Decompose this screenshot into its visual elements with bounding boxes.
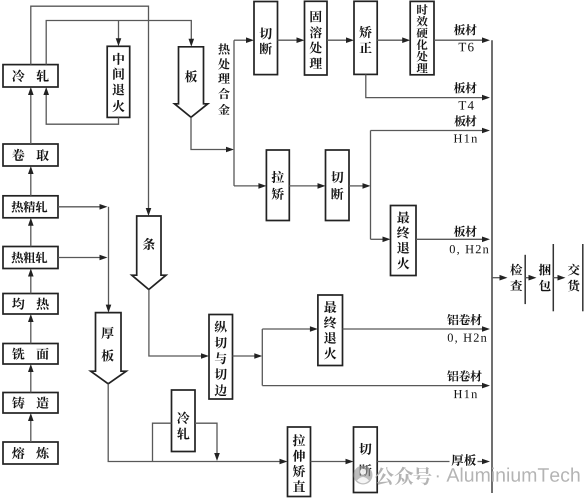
wire 最终退火 upper → 板材 0,H2n output [416,237,490,243]
flag 厚板 (thick plate) [91,313,127,384]
box 固溶处理 (solution treatment) [305,1,328,75]
label 板材 T4 [454,82,477,109]
box 冷轧 #2 (cold rolling) [172,390,196,452]
wire main → 检查 [492,275,508,281]
wire vertical down to 厚板 [106,207,112,313]
wire 拉伸矫直 → 切断#3 [311,459,354,465]
wire 切断#3 → 厚板 label → main line [377,459,490,465]
label 热处理合金 (heat-treatable alloy) [218,43,230,114]
wire branch → 中间退火 feed [116,21,122,47]
box 铸造 (casting) [3,393,58,414]
wire 热精轧 → 厚板 line [58,204,108,210]
flag 条 (strip) [132,216,166,290]
wire 中间退火 → 冷轧 return loop [43,87,118,124]
wire 拉矫 → 切断#2 [289,183,325,189]
box 纵切与切边 (slitting and edge trimming) [209,315,233,400]
label 铝卷材 0,H2n [447,314,486,344]
wire 冷轧#2 loop out [195,423,220,461]
wire 熔炼 → 铸造 [28,413,34,442]
box 热精轧 (hot finish rolling) [3,196,58,218]
box 卷取 (coiling) [3,144,58,166]
box 热粗轧 (hot rough rolling) [3,247,58,269]
wire 板 → 热处理合金 line [191,117,234,152]
wire 冷轧 top → 板 feed line [46,21,194,65]
box 切断 #2 (cutting) [326,150,350,221]
wire 铸造 → 铣面 [28,364,34,393]
wire 热处理合金 vertical [233,40,235,186]
box 时效硬化处理 (age hardening treatment) [410,1,434,74]
wire → 拉矫 [234,183,266,189]
wire 最终退火 lower → 铝卷材 0,H2n output [343,326,491,332]
wire 切断#2 → splitter [349,183,371,189]
wire 固溶处理 → 矫正 [327,37,354,43]
wire splitter vertical (板材 branch) [370,131,372,240]
box 拉伸矫直 (stretch straightening) [288,427,311,497]
label 铝卷材 H1n [447,370,482,398]
label 厚板 (thick plate output) [452,454,476,466]
wire 检查 → 捆包 [525,275,536,281]
label 板材 T6 [454,24,477,51]
wire 卷取 → 冷轧 [28,87,34,144]
wire 铣面 → 均热 [28,314,34,344]
box 均热 (soaking) [3,294,58,315]
box 中间退火 (intermediate annealing) [107,46,130,117]
wire splitter → 最终退火 upper [371,237,391,243]
wire 热粗轧 → 厚板 line [58,255,108,261]
divider bar after 捆包 [552,244,554,311]
box 切断 #1 (cutting) [254,2,278,75]
watermark icon circle [354,466,373,485]
label 捆包 (packing) [539,264,551,292]
wire 时效硬化处理 → 板材 T6 output [434,37,490,43]
wire 条 → 纵切与切边 [149,290,209,359]
divider bar after 交货 [582,244,584,311]
wire 矫正 → 时效硬化处理 [377,37,410,43]
wire 切断#1 → 固溶处理 [278,37,305,43]
wire main collection line [491,40,493,493]
wire 纵切与切边 → splitter [233,353,263,359]
flag 板 (plate) [175,47,208,118]
wire 板材 H1n output line [371,128,491,134]
wire splitter vertical (铝卷材 branch) [261,329,263,386]
divider bar after 检查 [524,255,526,304]
wire 厚板 → bottom run to 拉伸矫直 [108,384,287,465]
wire → 切断#1 [234,37,254,43]
watermark text 公众号 · AluminiumTech [375,467,580,485]
label 板材 H1n [454,115,477,142]
box 最终退火 upper (final annealing) [391,206,417,276]
wire splitter → 最终退火 lower [262,326,318,332]
wire 铝卷材 H1n output line [262,383,490,389]
label 检查 (inspection) [510,264,522,291]
box 铣面 (surface milling) [3,344,58,365]
wire 矫正 → 板材 T4 output [366,74,490,100]
box 冷轧 (cold rolling) [3,65,58,87]
box 最终退火 lower (final annealing) [318,295,343,366]
box 矫正 (straightening) [354,1,377,74]
box 拉矫 (tension leveling) [266,150,289,221]
box 熔炼 (melting) [3,442,58,464]
wire 冷轧 top → 条 feed line [31,6,152,216]
wire 热精轧 → 卷取 [28,166,34,196]
wire 冷轧#2 loop in [153,423,172,461]
label 交货 (delivery) [568,264,580,292]
box 切断 #3 (cutting) [354,427,378,493]
wire 均热 → 热粗轧 [28,269,34,294]
label 板材 0,H2n [450,226,489,255]
wire 热粗轧 → 热精轧 [28,218,34,247]
wire 捆包 → 交货 [553,275,565,281]
